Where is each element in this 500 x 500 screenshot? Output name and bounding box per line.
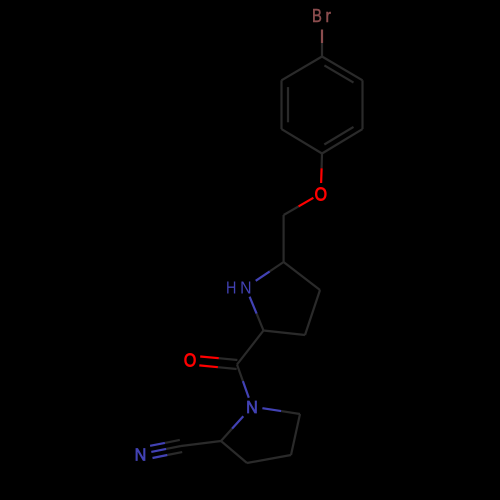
nitrile C#N triple bond	[165, 440, 180, 443]
bond CH2-C2 pyrrolidine	[283, 215, 285, 262]
svg-text:N: N	[135, 445, 147, 465]
pyrrolidine-1 bond C5-N1	[257, 314, 264, 331]
bond C5-C carbonyl	[237, 331, 264, 365]
svg-text:N: N	[246, 397, 258, 417]
pyrrolidine-1 bond N1-C2	[256, 271, 270, 280]
benzene bond C4-C5	[282, 129, 323, 153]
pyrrolidine-2 bond C4'-C3'	[247, 455, 291, 463]
bond O-CH2	[299, 198, 314, 207]
benzene bond C1-C2 (double)	[322, 57, 363, 81]
pyrrolidine-2 bond C2'-N	[221, 429, 232, 441]
pyrrolidine-1 bond C3-C4	[305, 290, 320, 335]
pyrrolidine-2 bond N-C5'	[262, 408, 281, 411]
benzene bond C6-C1	[282, 57, 323, 81]
benzene bond C3-C4 (double)	[322, 129, 363, 153]
svg-text:O: O	[315, 183, 327, 204]
bond C2'-C nitrile carbon	[181, 441, 221, 446]
pyrrolidine-1 bond C4-C5	[264, 331, 306, 336]
carbonyl C=O double bond	[219, 358, 238, 360]
svg-text:O: O	[184, 349, 196, 370]
benzene bond C2-C3	[361, 80, 363, 129]
benzene bond C5-C6 (double)	[280, 80, 282, 129]
pyrrolidine-2 bond C5'-C4'	[291, 414, 300, 455]
bond C4-O ether	[321, 154, 324, 169]
bond C1-Br	[321, 43, 323, 57]
svg-text:N: N	[240, 278, 251, 298]
pyrrolidine-1 bond C2-C3	[284, 262, 320, 290]
svg-text:r: r	[325, 5, 331, 26]
svg-text:B: B	[312, 5, 322, 26]
svg-text:H: H	[226, 278, 236, 298]
pyrrolidine-2 bond C3'-C2'	[221, 441, 247, 463]
amide bond C-N	[237, 365, 243, 382]
